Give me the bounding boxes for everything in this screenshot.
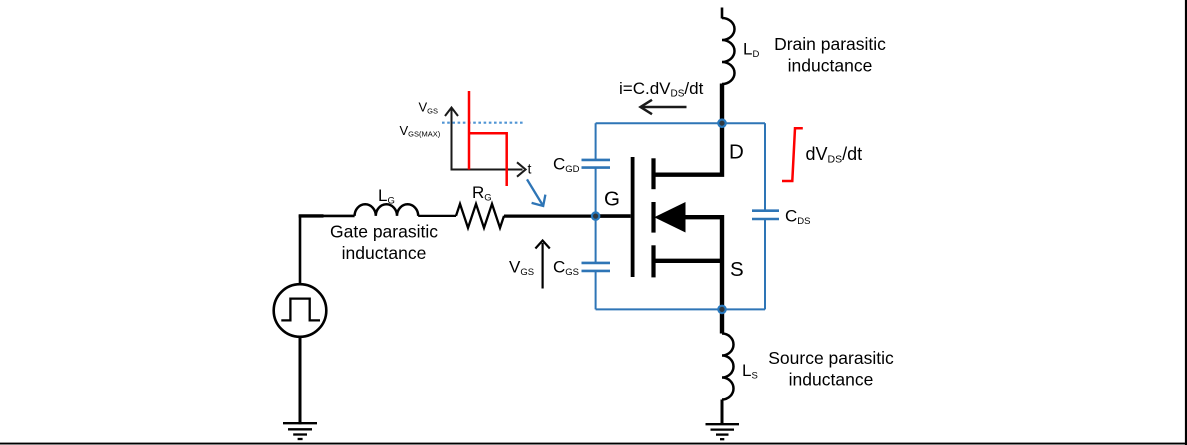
node D junction dot [718, 120, 725, 127]
svg-text:CDS: CDS [785, 207, 810, 228]
wire top stub above L_D [721, 8, 724, 19]
wire L_D to node D [720, 84, 724, 124]
svg-text:LD: LD [743, 40, 759, 61]
node G junction dot [592, 212, 599, 219]
wire L_S to ground [721, 400, 724, 425]
current direction arrow [641, 100, 687, 114]
svg-text:Drain parasitic: Drain parasitic [774, 34, 886, 54]
wire L_G to R_G [418, 215, 456, 217]
svg-text:D: D [729, 141, 744, 164]
svg-text:LG: LG [378, 186, 395, 207]
Q1 source stub [653, 259, 722, 263]
svg-text:CGS: CGS [553, 258, 579, 279]
inductor L_D [722, 18, 735, 84]
frame bottom border [0, 443, 1187, 445]
svg-text:RG: RG [472, 183, 492, 204]
pulse source V1 [274, 284, 327, 337]
dotted V_GS(MAX) level line [442, 122, 525, 124]
svg-text:VGS: VGS [509, 258, 534, 279]
frame right border [1185, 0, 1187, 445]
ground (left) [283, 423, 317, 439]
inductor L_G [355, 204, 419, 216]
node S junction dot [718, 306, 725, 313]
Q1 gate bar [631, 157, 635, 277]
svg-text:LS: LS [742, 361, 758, 382]
Q1 gate lead [596, 214, 631, 218]
blue device boundary box [596, 123, 765, 309]
red dV_DS/dt edge symbol [782, 128, 803, 181]
capacitor C_GD [582, 160, 611, 168]
Q1 drain stub [653, 123, 722, 175]
svg-text:Source parasitic: Source parasitic [768, 348, 894, 368]
svg-text:i=C.dVDS/dt: i=C.dVDS/dt [619, 79, 704, 100]
capacitor C_GS [582, 263, 611, 271]
Q1 diode lead and source drop [683, 217, 722, 309]
wire stub at corner [299, 214, 324, 217]
transistor Q1 (N-MOSFET with body diode) [596, 123, 722, 309]
svg-text:S: S [730, 258, 744, 281]
wire pulse source up and right to L_G [300, 216, 355, 285]
resistor R_G [456, 204, 504, 228]
wire node S to L_S [720, 309, 724, 333]
svg-text:dVDS/dt: dVDS/dt [806, 144, 863, 166]
wire pulse source to ground [299, 337, 302, 425]
svg-text:inductance: inductance [789, 370, 874, 390]
V_GS sense arrow [535, 241, 549, 289]
red V_GS waveform [469, 91, 507, 186]
svg-text:inductance: inductance [788, 56, 873, 76]
inductor L_S [722, 334, 734, 400]
capacitor C_DS [752, 211, 779, 219]
svg-text:G: G [604, 188, 620, 211]
svg-text:VGS: VGS [419, 100, 439, 116]
Q1 channel segments [651, 158, 655, 277]
ground (right) [706, 424, 740, 439]
svg-text:Gate parasitic: Gate parasitic [330, 222, 438, 242]
Q1 body diode [654, 202, 685, 233]
inset graph x-axis [451, 162, 526, 176]
blue pointer arrow to gate wire [527, 179, 545, 206]
svg-text:VGS(MAX): VGS(MAX) [400, 123, 441, 139]
svg-text:t: t [528, 161, 532, 177]
inset graph y-axis [445, 108, 458, 171]
svg-text:CGD: CGD [553, 155, 580, 176]
wire R_G to gate node [504, 215, 597, 218]
svg-text:inductance: inductance [342, 243, 427, 263]
